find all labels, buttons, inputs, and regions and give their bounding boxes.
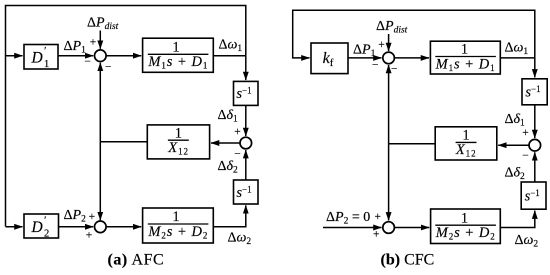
block s^-1 upper (b) xyxy=(522,79,547,105)
wire s^-1 lower output up into Sd (a) xyxy=(245,150,247,180)
svg-text:−: − xyxy=(372,60,379,72)
svg-text:s−1: s−1 xyxy=(525,188,540,205)
svg-text:(b) CFC: (b) CFC xyxy=(381,252,435,269)
svg-text:D′1: D′1 xyxy=(31,46,50,70)
svg-text:s−1: s−1 xyxy=(236,86,251,103)
fraction bar X12 (b) xyxy=(456,141,477,143)
svg-text:X12: X12 xyxy=(455,142,477,159)
svg-text:Δδ1: Δδ1 xyxy=(218,108,239,125)
svg-text:+: + xyxy=(373,229,380,241)
wire s^-1 lower output up into Sd (b) xyxy=(534,152,536,182)
wire kf output to summing junction S1b xyxy=(348,57,382,59)
fraction bar M2 (b) xyxy=(435,224,496,226)
svg-text:1: 1 xyxy=(461,210,468,226)
svg-text:−: − xyxy=(234,149,241,161)
wire X12 feed up into S1b bottom xyxy=(388,65,390,144)
wire into block D'2 xyxy=(6,226,23,228)
svg-text:+: + xyxy=(234,126,241,138)
svg-text:Δω2: Δω2 xyxy=(228,231,252,248)
wire w2 output up into s^-1 lower (b) xyxy=(500,211,535,228)
svg-text:M2s + D2: M2s + D2 xyxy=(435,225,496,242)
svg-text:+: + xyxy=(90,37,97,49)
svg-text:−: − xyxy=(522,150,529,162)
wire Sd output into block X12 (a) xyxy=(211,142,240,144)
summing junction Sd (b) xyxy=(529,139,541,151)
svg-text:ΔP2: ΔP2 xyxy=(64,208,87,225)
svg-text:s−1: s−1 xyxy=(525,84,540,101)
svg-text:1: 1 xyxy=(172,209,179,225)
summing junction S1b xyxy=(383,52,395,64)
svg-text:ΔP2 = 0: ΔP2 = 0 xyxy=(326,210,370,227)
block 1/X12 (a) xyxy=(147,125,209,159)
fraction bar X12 (a) xyxy=(168,139,189,141)
summing junction S2a xyxy=(95,221,107,233)
svg-text:1: 1 xyxy=(461,42,468,58)
block D'1 xyxy=(24,45,58,70)
svg-text:1: 1 xyxy=(462,128,469,144)
block 1/(M1s+D1) (b) xyxy=(430,41,500,74)
svg-text:Δδ2: Δδ2 xyxy=(218,159,239,176)
wire node w1 down into s-1 block (b) xyxy=(534,58,536,78)
wire X12 output left (b) xyxy=(389,143,436,145)
wire S2a to block M2a xyxy=(106,226,141,228)
wire D'2 output to summing junction S2a xyxy=(59,226,94,228)
svg-text:+: + xyxy=(86,230,93,242)
svg-text:−: − xyxy=(105,62,112,74)
svg-text:Δω1: Δω1 xyxy=(219,38,243,55)
block 1/X12 (b) xyxy=(435,127,497,160)
wire s^-1 upper output down into Sd (b) xyxy=(534,105,536,138)
summing junction Sd (a) xyxy=(240,137,252,149)
svg-text:1: 1 xyxy=(175,125,182,141)
block 1/(M1s+D1) (a) xyxy=(143,38,214,72)
wire feedback loop (a): from node w1 up over top and down left rail xyxy=(6,6,246,227)
svg-text:ΔP1: ΔP1 xyxy=(353,43,376,60)
wire D'1 output to summing junction S1a xyxy=(58,55,93,57)
svg-text:kf: kf xyxy=(323,50,334,69)
svg-text:1: 1 xyxy=(172,39,179,55)
svg-text:ΔP1: ΔP1 xyxy=(64,39,87,56)
svg-text:X12: X12 xyxy=(167,140,189,157)
block s^-1 lower (a) xyxy=(234,180,259,204)
svg-text:+: + xyxy=(522,127,529,139)
svg-text:D′2: D′2 xyxy=(31,216,50,240)
wire w2 output up into s^-1 lower (a) xyxy=(213,205,246,226)
summing junction S1a xyxy=(95,50,107,62)
svg-text:Δω2: Δω2 xyxy=(515,233,539,250)
wire Sd output into block X12 (b) xyxy=(498,144,529,146)
svg-text:−: − xyxy=(391,64,398,76)
wire S1a to block M1a xyxy=(106,55,141,57)
wire dP_dist drop into S1a xyxy=(99,31,101,49)
block s^-1 upper (a) xyxy=(234,81,259,105)
svg-text:ΔPdist: ΔPdist xyxy=(376,19,408,36)
block 1/(M2s+D2) (b) xyxy=(431,209,501,244)
svg-text:s−1: s−1 xyxy=(236,185,251,202)
wire w1 output (b) xyxy=(500,57,535,59)
wire into block D'1 xyxy=(6,55,23,57)
wire dP2=0 input into S2b xyxy=(323,227,382,229)
wire node w1 down into s-1 block (a) xyxy=(245,56,247,80)
block 1/(M2s+D2) (a) xyxy=(143,208,214,243)
svg-text:ΔPdist: ΔPdist xyxy=(87,16,119,33)
svg-text:Δω1: Δω1 xyxy=(505,41,529,58)
block s^-1 lower (b) xyxy=(521,182,546,209)
summing junction S2b xyxy=(383,222,395,234)
fraction bar M1 (a) xyxy=(148,53,209,55)
wire X12 feed down into S2a top xyxy=(99,142,101,220)
fraction bar M1 (b) xyxy=(435,56,496,58)
svg-text:M1s + D1: M1s + D1 xyxy=(435,56,496,73)
wire X12 feed down into S2b top xyxy=(388,144,390,221)
wire S2b to block M2b xyxy=(394,227,429,229)
svg-text:M2s + D2: M2s + D2 xyxy=(147,224,208,241)
svg-text:+: + xyxy=(378,39,385,51)
wire X12 output left (a) xyxy=(100,141,147,143)
block D'2 xyxy=(24,214,59,238)
svg-text:+: + xyxy=(374,211,381,223)
svg-text:M1s + D1: M1s + D1 xyxy=(147,54,208,71)
svg-text:−: − xyxy=(84,56,91,68)
svg-text:+: + xyxy=(89,211,96,223)
wire X12 feed up into S1a bottom xyxy=(99,63,101,142)
wire feedback loop (b): from node w1 up over top and down left rail into kf xyxy=(293,10,535,58)
svg-text:Δδ2: Δδ2 xyxy=(505,166,526,183)
wire dP_dist drop into S1b xyxy=(388,34,390,51)
fraction bar M2 (a) xyxy=(148,223,209,225)
wire w1 output (a) xyxy=(213,55,246,57)
wire s^-1 upper output down into Sd (a) xyxy=(245,105,247,136)
block kf xyxy=(311,43,348,74)
wire S1b to block M1b xyxy=(394,57,429,59)
svg-text:(a) AFC: (a) AFC xyxy=(108,252,165,269)
